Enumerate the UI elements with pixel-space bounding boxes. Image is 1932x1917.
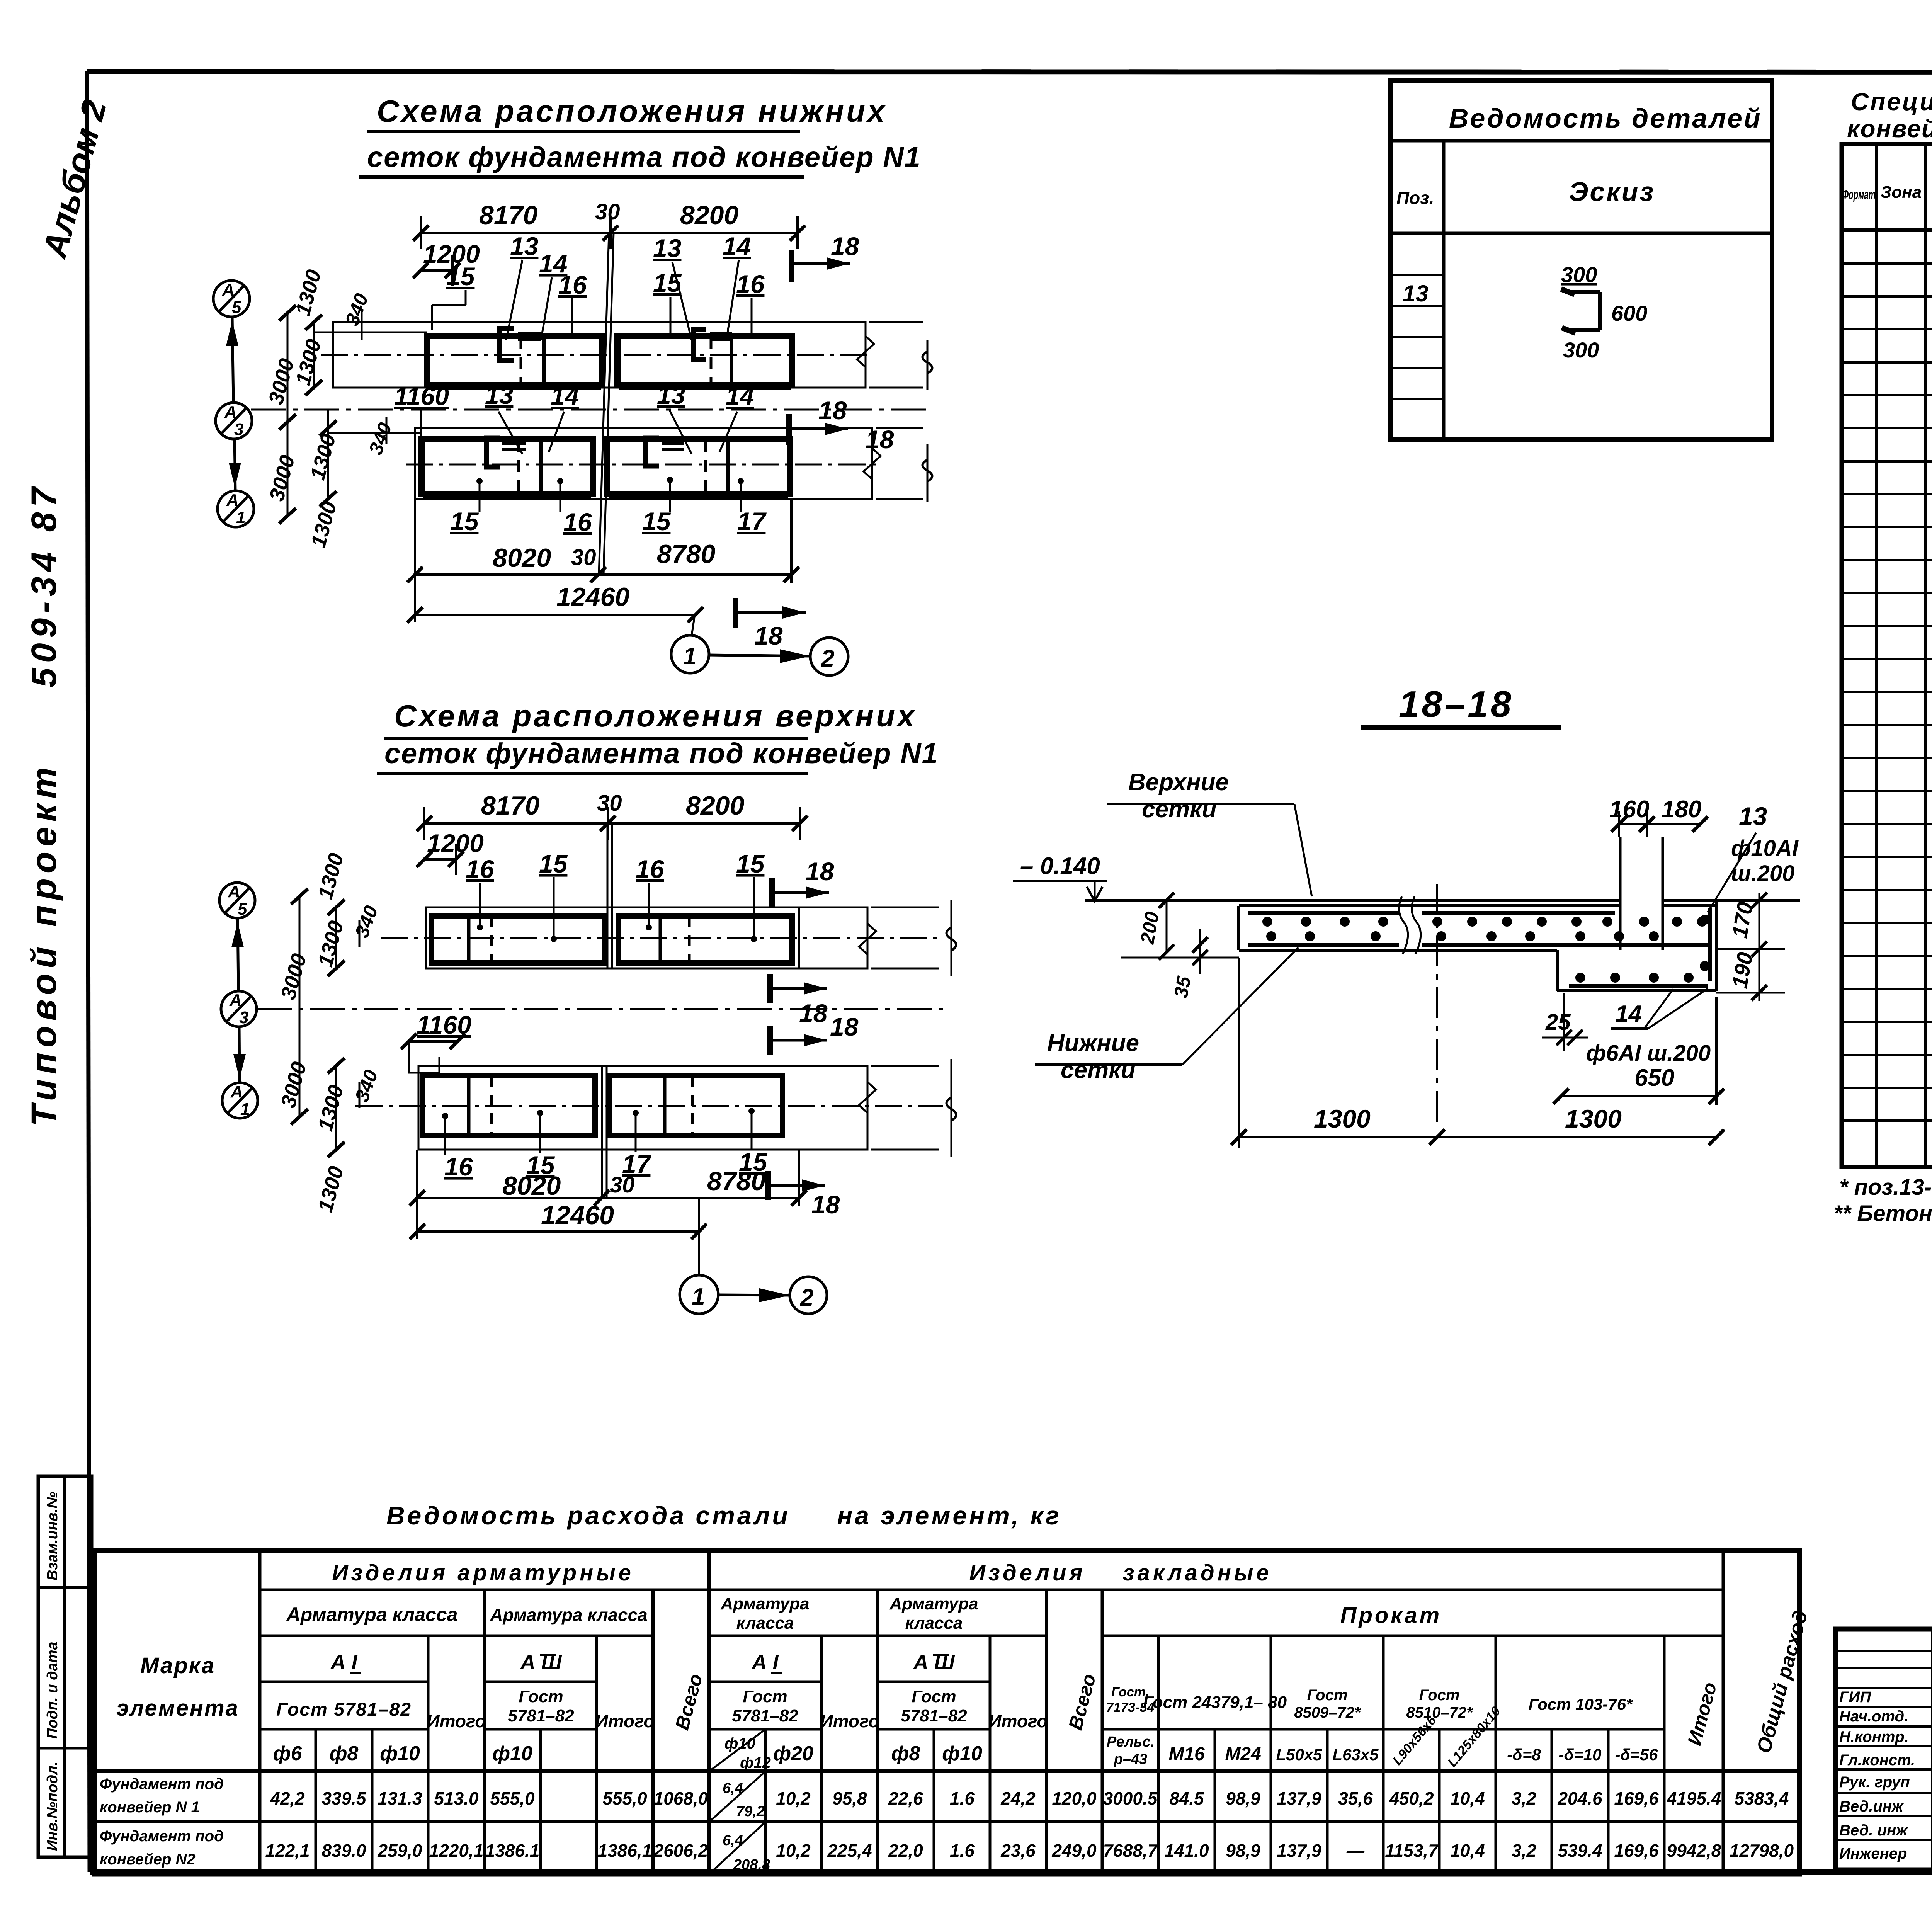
svg-text:** Бетон армированных констр: ** Бетон армированных конструкций. (1833, 1201, 1932, 1226)
svg-text:35: 35 (1170, 974, 1195, 1000)
svg-text:сетки: сетки (1142, 796, 1216, 823)
svg-text:30: 30 (595, 199, 620, 225)
left dim stack upper (313, 322, 315, 388)
svg-text:1153,7: 1153,7 (1385, 1840, 1439, 1861)
svg-text:3000: 3000 (265, 453, 299, 504)
svg-text:Арматура: Арматура (889, 1594, 978, 1613)
svg-text:1300: 1300 (307, 499, 341, 550)
row lines (1842, 264, 1932, 1121)
svg-text:1: 1 (236, 508, 245, 527)
svg-text:300: 300 (1561, 262, 1597, 287)
svg-text:Поз.: Поз. (1396, 188, 1434, 208)
svg-text:1300: 1300 (306, 432, 340, 483)
svg-text:А: А (228, 882, 240, 901)
svg-text:24,2: 24,2 (1000, 1788, 1036, 1808)
svg-text:555,0: 555,0 (490, 1788, 535, 1808)
svg-text:3000.5: 3000.5 (1103, 1788, 1158, 1808)
vedomost detaley table (1391, 80, 1772, 439)
svg-text:15: 15 (450, 507, 479, 536)
svg-text:16: 16 (736, 270, 765, 298)
svg-text:25: 25 (1545, 1010, 1571, 1035)
svg-text:Изделия арматурные: Изделия арматурные (332, 1560, 634, 1585)
svg-text:8170: 8170 (481, 791, 539, 820)
svg-text:Гост 103-76*: Гост 103-76* (1529, 1695, 1633, 1713)
svg-text:137,9: 137,9 (1277, 1788, 1321, 1808)
svg-text:—: — (1346, 1840, 1365, 1861)
svg-text:ф20: ф20 (773, 1742, 813, 1765)
top dimension line 8170/30/8200 (413, 216, 805, 249)
svg-text:15: 15 (642, 507, 671, 536)
svg-text:8200: 8200 (686, 791, 744, 820)
rebar meshes top slab (1248, 911, 1399, 915)
svg-text:элемента: элемента (116, 1696, 239, 1721)
svg-text:А I: А I (330, 1651, 357, 1674)
svg-text:5: 5 (232, 298, 241, 317)
svg-text:ф10АI: ф10АI (1731, 836, 1799, 861)
svg-text:Типовой проект 509-34 87: Типовой проект 509-34 87 (24, 482, 64, 1126)
svg-text:513.0: 513.0 (434, 1788, 479, 1808)
ground line (1085, 899, 1620, 902)
svg-text:555,0: 555,0 (602, 1788, 647, 1808)
svg-text:Итого: Итого (989, 1711, 1048, 1731)
svg-text:-δ=56: -δ=56 (1615, 1745, 1658, 1764)
svg-text:ф8: ф8 (891, 1742, 920, 1765)
svg-text:122,1: 122,1 (265, 1840, 310, 1861)
svg-text:Рельс.: Рельс. (1107, 1734, 1155, 1750)
svg-text:1200: 1200 (427, 829, 484, 857)
svg-text:Формат: Формат (1842, 187, 1876, 202)
svg-text:8200: 8200 (680, 201, 738, 230)
svg-text:3: 3 (239, 1008, 248, 1027)
svg-text:А: А (230, 1082, 243, 1101)
svg-text:300: 300 (1563, 338, 1599, 362)
svg-text:сетки: сетки (1061, 1057, 1135, 1084)
svg-text:3000: 3000 (277, 1060, 311, 1111)
1300 1300 dims (1231, 958, 1724, 1148)
svg-text:10,2: 10,2 (776, 1840, 811, 1861)
svg-text:13: 13 (1403, 281, 1429, 306)
svg-text:Вед. инж: Вед. инж (1839, 1822, 1908, 1839)
svg-text:180: 180 (1662, 796, 1701, 823)
svg-text:8780: 8780 (657, 539, 715, 569)
svg-text:1386,1: 1386,1 (598, 1840, 652, 1861)
svg-text:Верхние: Верхние (1128, 769, 1229, 796)
svg-text:Нач.отд.: Нач.отд. (1839, 1708, 1908, 1725)
circles 1-2 (692, 615, 695, 636)
svg-text:ш.200: ш.200 (1731, 861, 1794, 886)
svg-text:169,6: 169,6 (1614, 1840, 1659, 1861)
svg-text:12460: 12460 (541, 1201, 614, 1230)
svg-text:L63х5: L63х5 (1332, 1745, 1379, 1764)
svg-text:95,8: 95,8 (832, 1788, 867, 1808)
svg-text:4195.4: 4195.4 (1667, 1788, 1721, 1808)
svg-text:340: 340 (351, 903, 382, 941)
svg-text:Зона: Зона (1881, 183, 1922, 202)
svg-text:А: А (229, 991, 242, 1010)
svg-text:35,6: 35,6 (1338, 1788, 1373, 1808)
svg-text:2: 2 (800, 1284, 813, 1311)
svg-text:ф10: ф10 (724, 1735, 755, 1752)
dim 1200 (424, 858, 456, 861)
svg-text:8510–72*: 8510–72* (1406, 1704, 1473, 1721)
svg-text:А: А (222, 281, 235, 299)
svg-text:8509–72*: 8509–72* (1294, 1704, 1361, 1721)
svg-text:конвейер N 1: конвейер N 1 (100, 1799, 200, 1816)
svg-text:1300: 1300 (314, 851, 348, 902)
svg-text:23,6: 23,6 (1000, 1840, 1036, 1861)
svg-text:Нижние: Нижние (1047, 1030, 1139, 1056)
svg-text:ф6: ф6 (273, 1742, 303, 1765)
svg-text:Эскиз: Эскиз (1569, 177, 1655, 207)
center axis of section (1436, 884, 1438, 1128)
svg-text:-δ=10: -δ=10 (1559, 1745, 1602, 1764)
svg-text:340: 340 (351, 1067, 382, 1105)
axis A3 plan2 (257, 1008, 947, 1010)
outer box (94, 1551, 1799, 1874)
section mark 18 top right plan2 (769, 878, 775, 908)
section mark 18 at axis right (786, 414, 792, 445)
svg-text:Всего: Всего (1065, 1672, 1100, 1732)
svg-text:15: 15 (539, 849, 568, 878)
svg-text:Гост: Гост (1307, 1687, 1348, 1704)
svg-text:Итого: Итого (820, 1711, 879, 1731)
svg-text:5383,4: 5383,4 (1735, 1788, 1789, 1808)
svg-text:Изделия закладные: Изделия закладные (969, 1560, 1272, 1585)
svg-text:249,0: 249,0 (1051, 1840, 1097, 1861)
dim 1200 (421, 269, 452, 272)
svg-text:Н.контр.: Н.контр. (1839, 1728, 1909, 1745)
svg-text:Гост: Гост (743, 1687, 787, 1706)
svg-text:208,8: 208,8 (733, 1857, 770, 1873)
svg-text:Итого: Итого (595, 1711, 655, 1731)
svg-text:1068,0: 1068,0 (654, 1788, 708, 1808)
svg-text:5: 5 (238, 900, 247, 919)
svg-text:14: 14 (726, 382, 754, 410)
svg-text:1: 1 (683, 643, 696, 670)
svg-text:М16: М16 (1168, 1744, 1205, 1764)
svg-text:12798,0: 12798,0 (1730, 1840, 1794, 1861)
svg-text:ф10: ф10 (942, 1742, 982, 1765)
LEFT MARGIN ROTATED TEXT (24, 96, 114, 1857)
svg-text:Инженер: Инженер (1839, 1845, 1907, 1862)
svg-text:340: 340 (365, 420, 396, 458)
svg-text:120,0: 120,0 (1052, 1788, 1097, 1808)
svg-text:10,4: 10,4 (1450, 1788, 1485, 1808)
upper strip thick mats (427, 336, 602, 385)
svg-text:18: 18 (806, 857, 834, 886)
svg-text:Марка: Марка (140, 1653, 215, 1678)
svg-text:2: 2 (821, 645, 834, 672)
svg-text:539.4: 539.4 (1558, 1840, 1602, 1861)
svg-text:15: 15 (736, 849, 765, 878)
svg-text:Итого: Итого (427, 1711, 486, 1731)
svg-text:А I: А I (751, 1651, 779, 1674)
rebar dots upper row (1262, 915, 1710, 983)
right side vertical with breaks plan1 (927, 340, 929, 390)
lower strip (415, 428, 872, 499)
svg-text:16: 16 (558, 270, 587, 299)
svg-text:1160: 1160 (394, 382, 449, 410)
svg-text:84.5: 84.5 (1169, 1788, 1204, 1808)
axis circles plan2 (219, 883, 258, 1118)
svg-text:Гост 5781–82: Гост 5781–82 (276, 1699, 412, 1720)
svg-text:14: 14 (1615, 1001, 1642, 1027)
svg-text:М24: М24 (1225, 1744, 1261, 1764)
svg-text:Ведомость расхода стали: Ведомость расхода стали на элемент, кг (386, 1501, 1061, 1530)
svg-text:98,9: 98,9 (1226, 1788, 1260, 1808)
svg-text:Арматура класса: Арматура класса (286, 1604, 458, 1625)
section mark 18 top right (789, 250, 794, 282)
svg-text:14: 14 (551, 382, 579, 410)
upper strip outline (333, 322, 866, 388)
svg-text:А: А (226, 491, 239, 510)
pos13 brackets upper strip (499, 328, 706, 361)
svg-text:Подп. и дата: Подп. и дата (44, 1641, 61, 1739)
svg-text:8020: 8020 (493, 543, 551, 573)
svg-text:8780: 8780 (707, 1167, 765, 1196)
svg-text:1300: 1300 (1565, 1104, 1622, 1133)
svg-text:30: 30 (610, 1172, 635, 1197)
svg-text:ф10: ф10 (380, 1742, 420, 1765)
svg-text:450,2: 450,2 (1389, 1788, 1434, 1808)
svg-text:169,6: 169,6 (1614, 1788, 1659, 1808)
svg-text:1300: 1300 (1314, 1104, 1371, 1133)
svg-text:18: 18 (866, 425, 894, 454)
lower strip plan2 (418, 1066, 867, 1150)
left dims plan2 (335, 907, 337, 968)
svg-text:30: 30 (571, 545, 596, 570)
break in slab middle (1399, 896, 1408, 954)
svg-text:1300: 1300 (314, 1164, 348, 1215)
svg-text:1: 1 (692, 1284, 705, 1310)
svg-text:конвейер N2: конвейер N2 (100, 1851, 196, 1868)
svg-text:8170: 8170 (479, 201, 537, 230)
svg-text:6,4: 6,4 (723, 1832, 743, 1849)
svg-text:13: 13 (653, 234, 681, 262)
svg-text:Общий расход: Общий расход (1753, 1608, 1812, 1755)
svg-text:Ведомость деталей: Ведомость деталей (1449, 103, 1762, 133)
svg-text:1: 1 (240, 1100, 250, 1119)
svg-text:339.5: 339.5 (321, 1788, 367, 1808)
svg-text:Вед.инж: Вед.инж (1839, 1798, 1904, 1815)
18 mark bottom plan2 (765, 1171, 771, 1200)
svg-text:сеток фундамента под конвейер: сеток фундамента под конвейер N1 (367, 141, 921, 173)
svg-text:конвейер N 1: конвейер N 1 (1847, 115, 1932, 143)
left dims 200/35 (1166, 900, 1168, 952)
axis A3 line (251, 409, 931, 411)
horizontal lines (94, 1590, 1799, 1822)
svg-text:ГИП: ГИП (1839, 1689, 1871, 1706)
svg-text:18: 18 (799, 999, 828, 1027)
svg-text:5781–82: 5781–82 (901, 1706, 967, 1725)
circles 1-2 plan2 (698, 1198, 700, 1275)
dims 160/180 above pedestal (1611, 811, 1708, 837)
svg-text:204.6: 204.6 (1557, 1788, 1602, 1808)
svg-text:7688,7: 7688,7 (1103, 1840, 1158, 1861)
svg-text:10,4: 10,4 (1450, 1840, 1485, 1861)
svg-text:13: 13 (1739, 802, 1767, 830)
svg-text:1.6: 1.6 (950, 1788, 975, 1808)
svg-text:Схема расположения нижних: Схема расположения нижних (377, 94, 887, 128)
svg-text:А: А (224, 403, 237, 422)
svg-text:160: 160 (1609, 796, 1649, 823)
svg-text:13: 13 (485, 381, 513, 409)
svg-text:Схема расположения верхних: Схема расположения верхних (394, 699, 917, 733)
svg-text:Инв.№подл.: Инв.№подл. (44, 1762, 61, 1851)
18 mark above lower strip right (767, 1026, 773, 1055)
right dims 170/190 (1759, 893, 1760, 1001)
svg-text:18–18: 18–18 (1399, 684, 1514, 725)
svg-text:Арматура класса: Арматура класса (490, 1605, 648, 1625)
slab outline (1239, 900, 1716, 991)
svg-text:98,9: 98,9 (1226, 1840, 1260, 1861)
svg-text:18: 18 (831, 232, 859, 260)
svg-text:Гост 24379,1– 80: Гост 24379,1– 80 (1143, 1693, 1287, 1712)
svg-text:Арматура: Арматура (721, 1594, 810, 1613)
vertical lines (260, 1551, 1723, 1874)
top dimension line (417, 807, 808, 840)
svg-text:Альбом 2: Альбом 2 (35, 96, 114, 262)
break mark right (857, 322, 874, 388)
svg-text:Итого: Итого (1684, 1680, 1721, 1748)
svg-text:* поз.13- см ведомость детал: * поз.13- см ведомость деталей (1839, 1175, 1932, 1200)
svg-text:6,4: 6,4 (723, 1780, 743, 1796)
centerline upper strip (321, 354, 871, 356)
pedestal (1619, 837, 1622, 950)
svg-text:р–43: р–43 (1114, 1751, 1148, 1767)
svg-text:13: 13 (657, 381, 685, 409)
svg-text:225,4: 225,4 (827, 1840, 872, 1861)
svg-text:16: 16 (563, 508, 592, 536)
svg-text:200: 200 (1136, 910, 1163, 946)
svg-text:10,2: 10,2 (776, 1788, 811, 1808)
svg-text:14: 14 (723, 232, 751, 260)
svg-text:1220,1: 1220,1 (429, 1840, 484, 1861)
svg-text:ф10: ф10 (492, 1742, 532, 1765)
svg-text:137,9: 137,9 (1277, 1840, 1321, 1861)
svg-text:5781–82: 5781–82 (732, 1706, 798, 1725)
svg-text:Гл.конст.: Гл.конст. (1839, 1752, 1915, 1769)
svg-text:8020: 8020 (502, 1171, 561, 1201)
svg-text:1386.1: 1386.1 (485, 1840, 540, 1861)
svg-text:600: 600 (1611, 301, 1647, 325)
svg-text:1300: 1300 (314, 1083, 348, 1134)
svg-text:3,2: 3,2 (1512, 1788, 1536, 1808)
svg-text:Гост: Гост (519, 1687, 563, 1706)
340 step left upper (313, 332, 427, 333)
svg-text:79,2: 79,2 (736, 1803, 765, 1820)
svg-text:Фундамент под: Фундамент под (100, 1828, 224, 1845)
svg-text:131.3: 131.3 (378, 1788, 422, 1808)
section mark 18 below strip1 right (767, 974, 773, 1003)
svg-text:12460: 12460 (556, 582, 629, 612)
svg-text:Взам.инв.№: Взам.инв.№ (44, 1492, 61, 1580)
svg-text:259,0: 259,0 (377, 1840, 422, 1861)
svg-text:839.0: 839.0 (321, 1840, 366, 1861)
sketch pos13 bracket (1561, 289, 1600, 333)
section mark 18 bottom (733, 598, 738, 628)
svg-text:650: 650 (1634, 1065, 1674, 1091)
svg-text:16: 16 (636, 855, 665, 883)
axis circles (213, 281, 254, 527)
pos13 brackets lower strip (486, 438, 659, 467)
svg-text:18: 18 (818, 396, 847, 425)
svg-text:Всего: Всего (671, 1672, 707, 1732)
svg-text:18: 18 (830, 1012, 859, 1041)
svg-text:18: 18 (811, 1190, 840, 1219)
svg-text:3,2: 3,2 (1512, 1840, 1536, 1861)
svg-text:Фундамент под: Фундамент под (100, 1776, 224, 1793)
svg-text:16: 16 (466, 855, 495, 883)
svg-text:ф6АI ш.200: ф6АI ш.200 (1586, 1041, 1711, 1066)
svg-text:Рук. груп: Рук. груп (1839, 1774, 1910, 1791)
svg-text:13: 13 (510, 232, 538, 260)
svg-text:18: 18 (754, 621, 783, 650)
svg-text:3000: 3000 (277, 951, 311, 1002)
svg-text:190: 190 (1727, 950, 1757, 990)
svg-text:9942,8: 9942,8 (1667, 1840, 1721, 1861)
svg-text:ф8: ф8 (330, 1742, 359, 1765)
svg-text:42,2: 42,2 (270, 1788, 305, 1808)
svg-text:– 0.140: – 0.140 (1020, 853, 1100, 879)
svg-text:141.0: 141.0 (1164, 1840, 1209, 1861)
svg-text:Гост: Гост (1419, 1687, 1460, 1704)
svg-text:сеток фундамента под конвейер: сеток фундамента под конвейер N1 (384, 737, 939, 769)
svg-text:Гост: Гост (912, 1687, 956, 1706)
340 step left lower (328, 432, 422, 434)
svg-text:класса: класса (736, 1614, 794, 1633)
bottom dims plan1 (407, 499, 799, 622)
joint 30 gap lines (599, 233, 609, 575)
svg-text:Спецификация к фундаменту: Спецификация к фундаменту под (1851, 88, 1932, 116)
svg-text:16: 16 (444, 1152, 473, 1181)
upper strip plan2 (426, 907, 867, 968)
svg-text:170: 170 (1727, 900, 1757, 940)
bottom dims plan2 (410, 1150, 807, 1239)
svg-text:22,0: 22,0 (888, 1840, 923, 1861)
svg-text:L50х5: L50х5 (1276, 1745, 1322, 1764)
svg-text:1300: 1300 (291, 267, 326, 318)
svg-text:5781–82: 5781–82 (508, 1706, 574, 1725)
svg-text:ф12: ф12 (740, 1754, 771, 1771)
svg-text:3: 3 (234, 420, 243, 439)
svg-text:17: 17 (737, 507, 767, 536)
svg-text:30: 30 (597, 791, 622, 816)
svg-text:15: 15 (446, 262, 475, 291)
svg-text:-δ=8: -δ=8 (1507, 1745, 1541, 1764)
svg-text:Прокат: Прокат (1340, 1603, 1442, 1628)
signatures part (1836, 1629, 1932, 1870)
svg-text:2606,2: 2606,2 (653, 1840, 708, 1861)
svg-text:1.6: 1.6 (950, 1840, 975, 1861)
main stamp (1836, 1629, 1932, 1870)
svg-text:22,6: 22,6 (888, 1788, 923, 1808)
svg-text:класса: класса (905, 1614, 963, 1633)
